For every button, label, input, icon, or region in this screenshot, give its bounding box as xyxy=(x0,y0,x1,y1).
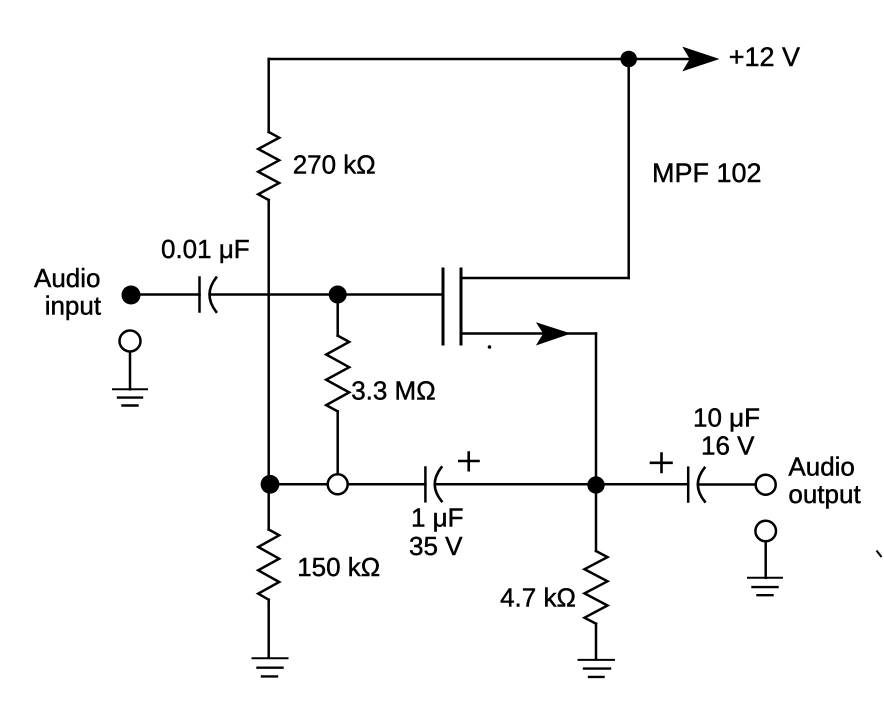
svg-text:MPF 102: MPF 102 xyxy=(652,158,762,188)
svg-text:10 μF: 10 μF xyxy=(693,403,760,433)
svg-text:output: output xyxy=(788,479,861,509)
svg-text:+12 V: +12 V xyxy=(729,42,800,72)
svg-text:150 kΩ: 150 kΩ xyxy=(297,552,380,582)
svg-text:Audio: Audio xyxy=(34,263,101,293)
svg-text:3.3 MΩ: 3.3 MΩ xyxy=(351,376,435,406)
svg-text:1 μF: 1 μF xyxy=(411,503,464,533)
svg-text:input: input xyxy=(45,291,102,321)
svg-text:270 kΩ: 270 kΩ xyxy=(293,149,376,179)
svg-text:4.7 kΩ: 4.7 kΩ xyxy=(500,583,576,613)
svg-text:Audio: Audio xyxy=(788,452,855,482)
svg-text:16 V: 16 V xyxy=(701,431,755,461)
svg-text:0.01 μF: 0.01 μF xyxy=(161,234,250,264)
svg-text:35 V: 35 V xyxy=(409,531,463,561)
